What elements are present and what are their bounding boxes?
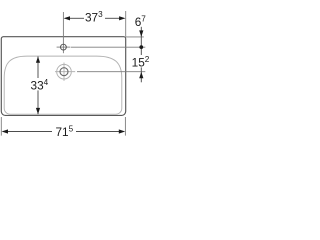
arrow down 33-4 [36,108,40,114]
white mask for label 15-2 [132,55,150,67]
washbasin outer rim [1,37,125,116]
chain dot at tap line [139,45,143,49]
extension line drain right (15-2 dim) [77,71,145,73]
dimension line 37-3 right segment [105,17,120,19]
arrow right 37-3 [119,16,125,20]
extension line bottom left (71-5 dim) [0,117,2,136]
drain crosshair horizontal [55,71,75,73]
drain outer circle [57,64,72,79]
tap hole centerline (vertical extension for 37-3 dim) [62,12,64,53]
arrow left 71-5 [2,129,8,133]
extension line top edge right (6-7 dim) [126,36,144,38]
tap hole crosshair horizontal [57,46,71,48]
extension line bottom right (71-5 dim) [124,117,126,136]
dimension line vertical right chain [140,27,142,83]
arrow right 71-5 [119,129,125,133]
extension line right edge up (37-3 dim) [125,11,127,37]
drain inner circle [60,68,68,76]
white mask for label 33-4 [30,78,48,90]
dimension line 33-4 vertical [37,57,39,115]
arrow left 37-3 [64,16,70,20]
tap hole [61,44,67,50]
dimension line 71-5 right segment [76,131,119,133]
dimension line 71-5 left segment [8,131,52,133]
drain crosshair vertical [63,63,65,81]
arrow down 6-7 [139,30,143,36]
arrow up 33-4 [36,57,40,63]
washbasin inner bowl [4,56,122,114]
arrow up 15-2 [139,72,143,78]
dimension line 37-3 left segment [70,17,85,19]
extension line tap hole right (6-7 / 15-2 dim) [71,46,146,48]
